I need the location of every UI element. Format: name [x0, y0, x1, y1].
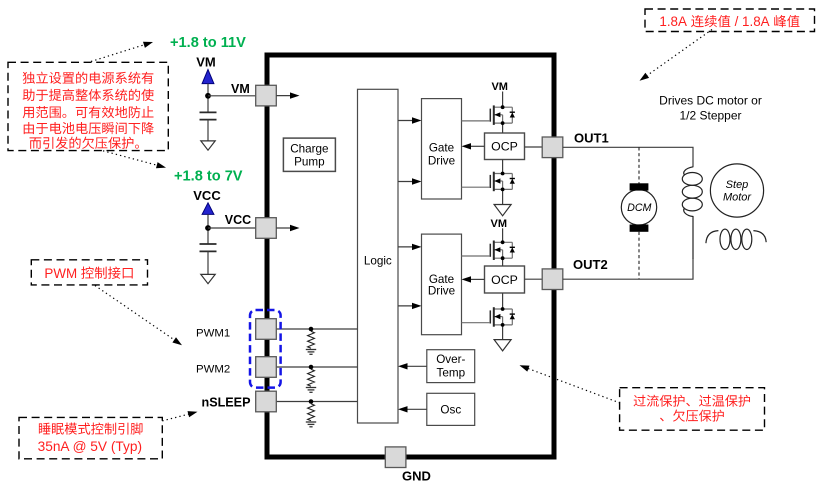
wire gate drive 2 to M4 gate [462, 322, 491, 324]
node PWM2 pulldown [309, 365, 314, 370]
svg-text:OUT2: OUT2 [573, 257, 608, 272]
callout: independent supply note [8, 62, 168, 150]
wire OCP2 to gate drive [469, 278, 485, 280]
arrow into gate drive from OCP2 [462, 276, 472, 282]
svg-text:1.8A: 1.8A [659, 14, 690, 29]
node PWM1 pulldown [309, 327, 314, 332]
wire logic to gate drive 2 [398, 181, 415, 183]
callout: protections [620, 388, 765, 431]
wire M4 source to ground [502, 325, 504, 340]
resistor PWM2 pull-down [308, 369, 315, 386]
transistor M2 low-side OUT1 [490, 172, 515, 192]
wire PWM1 to logic [276, 328, 357, 330]
charge pump block [283, 138, 335, 171]
pin VM [256, 85, 277, 106]
ground nSLEEP pull-down [306, 422, 316, 427]
over-temp block [427, 350, 475, 383]
transistor M4 low-side OUT2 [490, 307, 515, 327]
svg-text:VM: VM [491, 81, 508, 93]
gate drive block 2 [422, 234, 462, 335]
callout: PWM control interface [31, 260, 147, 285]
wire dcm dashed bottom [638, 232, 640, 279]
svg-text:DCM: DCM [627, 202, 651, 214]
svg-text:Charge: Charge [290, 142, 328, 155]
wire M2 source to ground [502, 189, 504, 204]
dotted arrow callout1 to +1.8to7V [103, 151, 166, 168]
wire gate drive 1 to M1 gate [462, 120, 491, 122]
svg-text:Osc: Osc [440, 404, 461, 417]
wire VM node to pin [208, 95, 256, 97]
svg-text:OCP: OCP [491, 273, 518, 287]
wire M3 source to OCP2 [502, 258, 504, 266]
capacitor VM bypass [200, 112, 217, 119]
dotted arrow sleep callout to nSLEEP [162, 411, 197, 421]
arrow VCC into IC [290, 225, 300, 231]
wire nSLEEP to logic [276, 401, 357, 403]
step motor [710, 164, 763, 217]
transistor M1 high-side OUT1 [490, 105, 515, 125]
wire OCP2 to OUT2 pin [525, 278, 543, 280]
wire logic to gate drive 4 [398, 305, 415, 307]
svg-text:PWM: PWM [44, 266, 80, 281]
wire gate drive 1 to M2 gate [462, 186, 491, 188]
wire VCC stem [207, 214, 209, 244]
arrow over-temp into logic [398, 363, 408, 369]
pin OUT1 [542, 137, 563, 158]
wire gate drive 2 to M3 gate [462, 255, 491, 257]
dotted arrow protections callout to IC [520, 365, 621, 403]
pin GND [385, 447, 406, 468]
arrow VCC into IC shaft [276, 227, 292, 229]
wire VM cap to ground [207, 120, 209, 141]
svg-text:VCC: VCC [225, 213, 251, 227]
wire logic to gate drive 3 [398, 246, 415, 248]
pin nSLEEP [256, 391, 277, 412]
svg-text:Drives DC motor or: Drives DC motor or [659, 93, 762, 107]
osc block [427, 393, 475, 425]
ground channel 1 [494, 205, 511, 216]
arrow osc into logic [398, 406, 408, 412]
wire OCP1 to gate drive [469, 145, 485, 147]
dotted arrow callout1 to +1.8to11V [91, 42, 153, 62]
arrow VM into IC [290, 92, 300, 98]
svg-text:OUT1: OUT1 [574, 130, 609, 145]
transistor M3 high-side OUT2 [490, 240, 515, 260]
node VM junction [205, 93, 211, 99]
arrow into gate drive 1 [412, 117, 422, 123]
OCP block 1 [485, 133, 525, 160]
svg-text:VM: VM [491, 218, 508, 230]
resistor PWM1 pull-down [308, 331, 315, 348]
svg-text:GND: GND [402, 469, 431, 484]
svg-text:Temp: Temp [437, 367, 466, 380]
svg-text:Pump: Pump [294, 155, 325, 168]
pin PWM1 [256, 319, 277, 340]
wire OCP1 to M2 drain [502, 160, 504, 174]
svg-text:35nA @ 5V (Typ): 35nA @ 5V (Typ) [38, 439, 142, 454]
callout: sleep mode pin [19, 417, 162, 458]
dotted arrow 1.8A callout to IC [640, 30, 713, 81]
wire VM stem [207, 84, 209, 113]
wire VM to M1 drain [502, 92, 504, 108]
arrow into gate drive 2 [412, 178, 422, 184]
svg-text:+1.8 to 7V: +1.8 to 7V [174, 169, 243, 185]
coil symbol (1/2 stepper) [706, 229, 766, 249]
wire VCC node to pin [208, 227, 256, 229]
pin VCC [256, 218, 277, 239]
node VCC junction [205, 225, 211, 231]
svg-text:Gate: Gate [429, 141, 454, 154]
wire OCP1 to OUT1 pin [525, 146, 543, 148]
DC motor DCM [621, 183, 656, 232]
ground VCC cap [201, 274, 215, 283]
svg-text:Drive: Drive [428, 155, 455, 168]
svg-text:OCP: OCP [491, 140, 518, 154]
ground PWM1 pull-down [306, 350, 316, 355]
resistor nSLEEP pull-down [308, 404, 315, 421]
svg-text:Motor: Motor [723, 191, 752, 203]
svg-text:PWM1: PWM1 [196, 327, 230, 339]
svg-text:Drive: Drive [428, 285, 455, 298]
ground channel 2 [494, 340, 511, 351]
wire OCP2 to M4 drain [502, 293, 504, 309]
wire M1 source to OCP1 [502, 123, 504, 133]
IC body (motor driver) [267, 55, 554, 457]
node nSLEEP pulldown [309, 399, 314, 404]
svg-text:VM: VM [196, 55, 216, 70]
wire VM to M3 drain [502, 228, 504, 242]
ground VM cap [201, 141, 215, 150]
ground PWM2 pull-down [306, 388, 316, 393]
dotted arrow PWM callout to pins [95, 286, 182, 346]
svg-text:Over-: Over- [436, 353, 465, 366]
stepper winding (inductor between OUT1/OUT2) [682, 167, 702, 259]
arrow VM into IC shaft [276, 95, 292, 97]
supply arrow VM (blue) [202, 70, 214, 84]
svg-text:1/2 Stepper: 1/2 Stepper [679, 109, 741, 123]
callout: 1.8A rating [645, 9, 815, 32]
svg-text:Step: Step [726, 179, 749, 191]
wire OUT1 to load [563, 147, 693, 167]
wire osc to logic [405, 408, 427, 410]
wire logic to gate drive 1 [398, 120, 415, 122]
svg-text:/ 1.8A: / 1.8A [731, 14, 773, 29]
wire dcm dashed top [638, 147, 640, 183]
arrow into gate drive from OCP1 [462, 143, 472, 149]
svg-text:nSLEEP: nSLEEP [202, 396, 251, 410]
wire PWM2 to logic [276, 366, 357, 368]
svg-text:VCC: VCC [193, 188, 221, 203]
wire over-temp to logic [405, 365, 427, 367]
PWM input group (blue dashed) [250, 310, 281, 388]
wire VCC cap to ground [207, 251, 209, 274]
arrow into gate drive 3 [412, 244, 422, 250]
wire OUT2 to load [563, 259, 693, 279]
OCP block 2 [485, 266, 525, 293]
svg-text:VM: VM [231, 82, 250, 96]
pin OUT2 [542, 269, 563, 290]
svg-text:PWM2: PWM2 [196, 364, 230, 376]
svg-text:+1.8 to 11V: +1.8 to 11V [170, 35, 246, 51]
svg-text:Logic: Logic [364, 255, 392, 268]
arrow into gate drive 4 [412, 303, 422, 309]
capacitor VCC bypass [200, 244, 217, 251]
gate drive block 1 [422, 99, 462, 199]
pin PWM2 [256, 357, 277, 378]
logic block U-logic [358, 89, 399, 423]
supply arrow VCC (blue) [202, 203, 214, 215]
